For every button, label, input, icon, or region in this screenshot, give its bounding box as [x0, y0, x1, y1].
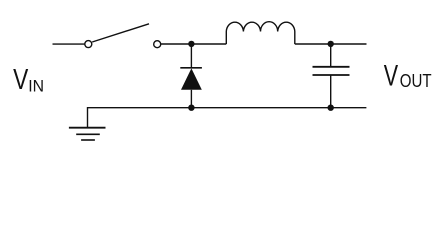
node: capacitor-ground junction dot	[328, 105, 334, 111]
svg-text:IN: IN	[28, 77, 44, 96]
wire: VIN feed to switch pole	[53, 43, 85, 45]
capacitor C1 top plate	[313, 66, 350, 68]
switch S1 lever (open)	[92, 24, 149, 42]
svg-text:OUT: OUT	[400, 71, 432, 92]
node SW junction dot	[188, 41, 194, 47]
wire: ground rail drop to earth symbol	[87, 107, 89, 127]
capacitor C1 bottom plate	[313, 74, 350, 76]
wire: node SW down to diode cathode	[190, 44, 192, 68]
wire: diode anode to ground rail	[190, 90, 192, 108]
wire: bottom ground rail	[88, 107, 367, 109]
diode D1 cathode bar	[180, 67, 202, 69]
wire: capacitor to ground rail	[330, 75, 332, 108]
ground symbol	[69, 128, 106, 140]
wire: switch to node SW	[161, 43, 226, 45]
wire: inductor to VOUT rail	[295, 43, 367, 45]
switch S1 throw terminal	[154, 41, 161, 48]
label VOUT	[384, 61, 432, 93]
diode D1 body (filled triangle, anode below)	[181, 68, 202, 89]
svg-text:V: V	[384, 61, 399, 93]
inductor L1	[226, 22, 294, 44]
svg-text:V: V	[13, 64, 29, 95]
switch S1 pole terminal	[85, 41, 92, 48]
wire: node VOUT down to capacitor	[330, 44, 332, 67]
label VIN	[13, 64, 44, 95]
node VOUT junction dot	[328, 41, 334, 47]
node: diode-ground junction dot	[188, 105, 194, 111]
